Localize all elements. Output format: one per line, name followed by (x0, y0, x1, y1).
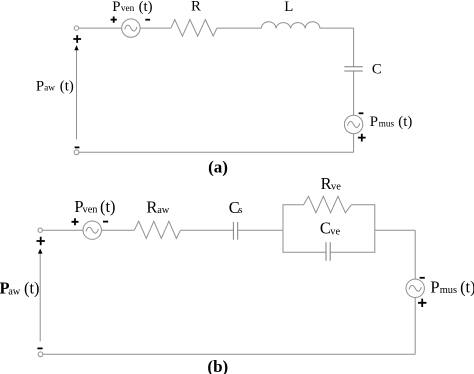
svg-text:ven: ven (121, 4, 135, 14)
svg-text:(t): (t) (460, 277, 474, 296)
svg-text:C: C (320, 219, 331, 238)
svg-text:P: P (112, 0, 120, 15)
svg-text:R: R (146, 197, 157, 216)
svg-text:ven: ven (83, 204, 99, 215)
svg-text:P: P (370, 114, 378, 130)
svg-text:mus: mus (440, 285, 457, 296)
svg-text:aw: aw (157, 205, 170, 216)
svg-text:aw: aw (44, 84, 55, 94)
svg-text:(t): (t) (100, 197, 115, 216)
svg-text:(t): (t) (60, 78, 74, 94)
svg-text:mus: mus (379, 120, 395, 130)
svg-text:(t): (t) (398, 114, 412, 130)
svg-text:L: L (284, 0, 293, 15)
svg-text:R: R (321, 174, 332, 193)
svg-text:R: R (191, 0, 201, 14)
svg-text:P: P (430, 277, 439, 296)
svg-text:(b): (b) (207, 357, 228, 374)
svg-text:ve: ve (331, 182, 341, 193)
svg-text:P: P (36, 78, 44, 94)
svg-text:s: s (238, 205, 242, 216)
svg-text:C: C (372, 62, 382, 78)
svg-text:(t): (t) (139, 0, 153, 15)
svg-text:ve: ve (330, 227, 340, 238)
svg-text:(a): (a) (208, 157, 228, 176)
svg-text:(t): (t) (24, 279, 39, 298)
svg-text:aw: aw (8, 286, 21, 297)
